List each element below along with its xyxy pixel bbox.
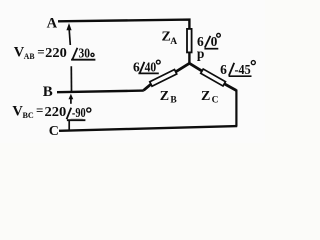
- node B: [43, 84, 53, 100]
- svg-text:6: 6: [220, 62, 227, 77]
- svg-text:6: 6: [133, 59, 140, 74]
- wire: node p to Z_C: [189, 63, 202, 71]
- svg-text:-45: -45: [235, 62, 251, 77]
- wire: Z_C to bottom-right corner: [224, 84, 236, 91]
- svg-text:A: A: [170, 37, 177, 47]
- impedance Z_C (rotated rectangle body): [201, 69, 226, 86]
- value label 6∠0° for Z_A: [197, 33, 220, 48]
- svg-text:Z: Z: [201, 89, 210, 104]
- value label V_BC = 220∠-90°: [12, 103, 90, 121]
- svg-text:C: C: [49, 124, 59, 139]
- wire: line A (phase A feeder, with corner down to Z_A): [58, 20, 189, 29]
- svg-text:p: p: [197, 46, 205, 61]
- svg-text:BC: BC: [23, 110, 34, 120]
- svg-text:B: B: [170, 96, 177, 106]
- wire: node p to Z_B: [176, 63, 190, 72]
- value label 6∠40° for Z_B: [133, 59, 160, 74]
- wire: right vertical drop to line C: [235, 90, 237, 127]
- svg-text:30: 30: [79, 45, 91, 60]
- svg-text:AB: AB: [24, 51, 35, 61]
- node C: [49, 124, 59, 139]
- svg-text:220: 220: [45, 46, 67, 61]
- wire: Z_A bottom to node p: [188, 53, 190, 65]
- voltage arrow V_AB (points up to line A): [66, 23, 71, 91]
- wire: Z_B to line B bend: [144, 84, 152, 90]
- scan smudge (faint): [71, 118, 83, 121]
- impedance Z_B (rotated rectangle body): [150, 70, 177, 87]
- value label V_AB = 220∠30°: [14, 44, 96, 61]
- value label 6∠-45° for Z_C: [220, 61, 255, 77]
- svg-text:220: 220: [45, 105, 67, 120]
- svg-text:-90: -90: [72, 105, 86, 120]
- svg-text:40: 40: [145, 59, 157, 74]
- svg-text:B: B: [43, 84, 53, 100]
- svg-text:A: A: [47, 16, 58, 32]
- node A: [47, 16, 58, 32]
- impedance Z_A (rectangle body): [187, 29, 192, 53]
- wire: line C (phase C feeder): [59, 126, 237, 131]
- svg-text:C: C: [212, 96, 219, 106]
- label Z_A: [162, 30, 178, 47]
- wire: line B (phase B feeder): [57, 91, 144, 93]
- label Z_B: [160, 89, 178, 106]
- label Z_C: [201, 89, 219, 106]
- svg-text:=: =: [37, 44, 44, 59]
- svg-text:Z: Z: [160, 89, 169, 104]
- voltage arrow V_BC (points up to line B): [69, 94, 74, 130]
- node p (junction label): [197, 46, 205, 61]
- svg-text:=: =: [36, 103, 43, 118]
